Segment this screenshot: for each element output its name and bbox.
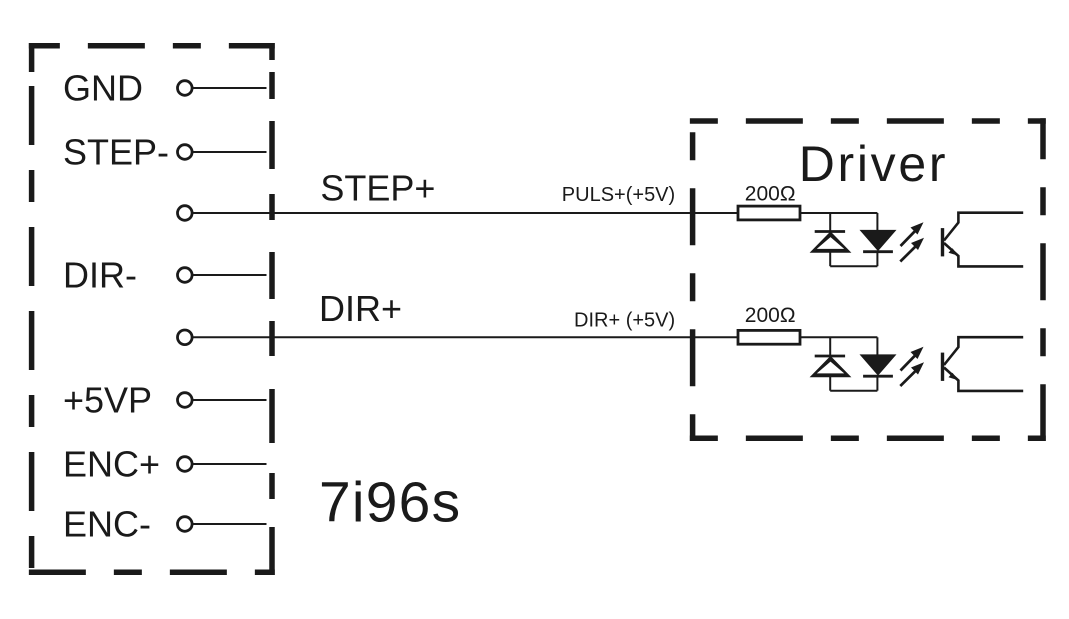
wire R2 to LED rail: [800, 336, 877, 338]
light arrows U2: [900, 347, 924, 386]
emitter path with arrow: [944, 243, 1023, 266]
pin DIR+: [178, 330, 193, 345]
pin STEP-: [63, 131, 192, 172]
pin STEP+: [178, 206, 193, 221]
svg-text:+5VP: +5VP: [63, 379, 152, 420]
phototransistor Q2: [943, 337, 1024, 391]
wire R1 to LED rail: [800, 212, 877, 214]
svg-text:STEP-: STEP-: [63, 131, 169, 172]
svg-text:ENC-: ENC-: [63, 503, 151, 544]
svg-text:PULS+(+5V): PULS+(+5V): [562, 184, 675, 206]
svg-text:STEP+: STEP+: [320, 167, 435, 208]
svg-text:200Ω: 200Ω: [745, 182, 796, 205]
light arrows U1: [900, 222, 924, 261]
pin ENC+: [63, 443, 192, 484]
pin +5VP: [63, 379, 192, 420]
svg-text:DIR+ (+5V): DIR+ (+5V): [574, 310, 675, 332]
LED D2 (emitting, cathode down): [876, 213, 878, 230]
svg-text:200Ω: 200Ω: [745, 304, 796, 327]
optocoupler U2 LED pair: [800, 337, 895, 390]
phototransistor Q1: [943, 213, 1024, 267]
wire STEP+ to resistor R1: [193, 212, 739, 214]
wire STEP- stub: [193, 151, 267, 153]
diode D1 (reverse protection, cathode up): [829, 213, 831, 232]
svg-text:DIR-: DIR-: [63, 254, 137, 295]
wire DIR- stub: [193, 274, 267, 276]
pin DIR-: [63, 254, 192, 295]
LED D4 (emitting, cathode down): [876, 337, 878, 355]
wire LED bottom rail: [830, 265, 877, 267]
Driver enclosure (dashed box): [690, 118, 1046, 441]
wire ENC- stub: [193, 523, 267, 525]
svg-text:ENC+: ENC+: [63, 443, 160, 484]
pin GND: [63, 67, 192, 108]
collector path: [944, 213, 1023, 241]
optocoupler U1 LED pair: [800, 213, 895, 266]
svg-text:GND: GND: [63, 67, 143, 108]
wire +5VP stub: [193, 399, 267, 401]
wire LED bottom rail: [830, 390, 877, 392]
diode D3 (reverse protection, cathode up): [829, 337, 831, 356]
wire GND stub: [193, 87, 267, 89]
wire ENC+ stub: [193, 463, 267, 465]
pin ENC-: [63, 503, 192, 544]
resistor R2 200ohm: [738, 304, 800, 344]
7i96s enclosure (dashed box): [29, 43, 275, 575]
resistor R1 200ohm: [738, 182, 800, 220]
svg-text:7i96s: 7i96s: [319, 471, 461, 535]
collector path: [944, 337, 1023, 365]
svg-text:DIR+: DIR+: [319, 288, 402, 329]
emitter path with arrow: [944, 368, 1023, 391]
svg-text:Driver: Driver: [799, 136, 949, 192]
wire DIR+ to resistor R2: [193, 336, 739, 338]
